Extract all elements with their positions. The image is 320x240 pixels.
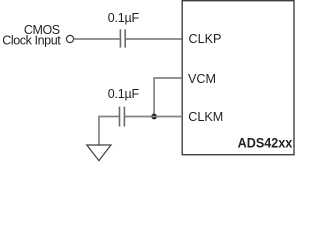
svg-text:CLKM: CLKM bbox=[188, 110, 223, 124]
svg-text:0.1µF: 0.1µF bbox=[108, 11, 140, 25]
svg-text:CLKP: CLKP bbox=[189, 32, 222, 46]
op-amp U1 ADS42xx box bbox=[182, 1, 294, 155]
svg-text:ADS42xx: ADS42xx bbox=[238, 135, 293, 151]
label: CMOS Clock Input bbox=[2, 23, 61, 48]
capacitor C1 0.1uF (top) bbox=[120, 29, 125, 47]
ground symbol bbox=[87, 145, 111, 161]
svg-text:Clock Input: Clock Input bbox=[2, 34, 61, 48]
wire: C2 left plate left then down to ground bbox=[99, 117, 119, 146]
wire: VCM pin branch (left then down to node) bbox=[154, 78, 182, 117]
svg-text:VCM: VCM bbox=[188, 72, 216, 86]
wire: C2 right plate to CLKM pin bbox=[125, 116, 182, 118]
svg-text:0.1µF: 0.1µF bbox=[108, 87, 140, 101]
capacitor C2 0.1uF (bottom) bbox=[120, 107, 125, 127]
input terminal circle bbox=[66, 35, 73, 42]
wire: C1 right plate to CLKP pin bbox=[126, 38, 182, 40]
wire: input terminal to C1 left plate bbox=[74, 38, 120, 40]
node: junction dot on CLKM line bbox=[151, 114, 157, 120]
